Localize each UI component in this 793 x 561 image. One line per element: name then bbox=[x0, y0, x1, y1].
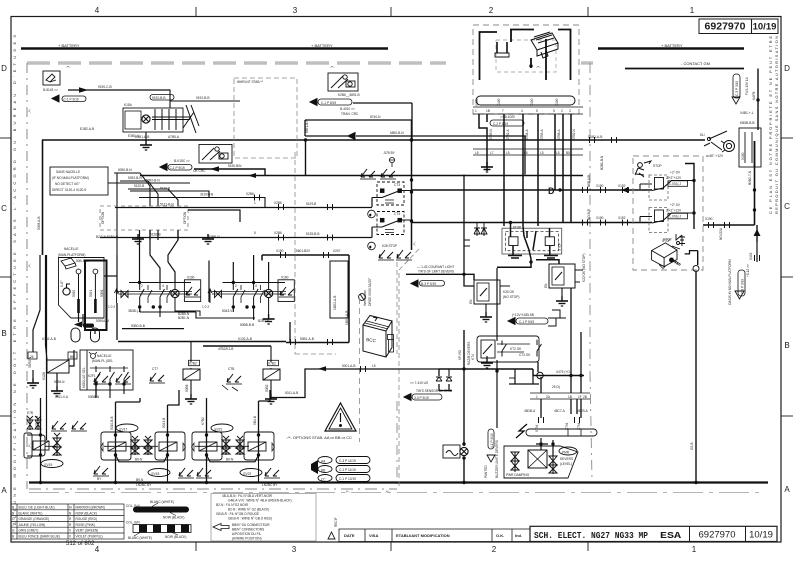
wire bracket right of diamond bbox=[685, 251, 698, 254]
svg-text:OPTION: OPTION bbox=[183, 211, 187, 224]
svg-text:512 of 802: 512 of 802 bbox=[66, 541, 95, 547]
badge AA bbox=[318, 457, 332, 464]
svg-text:DATE: DATE bbox=[344, 533, 355, 538]
wires right of option box bbox=[150, 210, 240, 240]
svg-text:GRIS (GREY): GRIS (GREY) bbox=[19, 529, 39, 533]
sensors above K2B bbox=[360, 169, 376, 179]
svg-text:DEVERS: DEVERS bbox=[560, 457, 573, 461]
svg-text:BLANC (WHITE): BLANC (WHITE) bbox=[19, 511, 43, 515]
svg-text:1BD2-A-B: 1BD2-A-B bbox=[333, 296, 337, 310]
left edge ticks bbox=[0, 137, 11, 139]
sensors above EV19 bbox=[51, 421, 67, 431]
svg-text:CT3: CT3 bbox=[394, 183, 400, 187]
svg-text:1: 1 bbox=[475, 109, 477, 113]
feed jogs into K2B pair bbox=[371, 198, 373, 238]
svg-text:5092-B-N: 5092-B-N bbox=[128, 176, 142, 180]
svg-text:3B3B-(-B: 3B3B-(-B bbox=[128, 309, 141, 313]
svg-text:3: 3 bbox=[293, 6, 298, 15]
right top connector box X190 bbox=[739, 128, 761, 167]
dashed box around plug bbox=[473, 25, 579, 114]
schematic dashed boundary right bbox=[589, 63, 591, 372]
svg-text:Ind.: Ind. bbox=[515, 533, 522, 538]
link wires through bowties bbox=[45, 445, 249, 447]
junction dots top rails bbox=[138, 281, 141, 284]
svg-text:5B4-B: 5B4-B bbox=[253, 416, 257, 425]
svg-text:-**-: -**- bbox=[413, 241, 417, 246]
svg-text:O.K.: O.K. bbox=[496, 533, 504, 538]
svg-text:KB5B-B-B: KB5B-B-B bbox=[740, 121, 755, 125]
icon box K15C bbox=[199, 145, 232, 164]
svg-text:PWR DAMPING: PWR DAMPING bbox=[506, 473, 530, 477]
svg-text:NO DETECT #G°: NO DETECT #G° bbox=[55, 182, 80, 186]
svg-text:D: D bbox=[784, 64, 790, 73]
feeder ladder wires bbox=[97, 183, 265, 207]
svg-text:VERT (GREEN): VERT (GREEN) bbox=[76, 529, 99, 533]
svg-text:BB/N° DU CONNECTEUR: BB/N° DU CONNECTEUR bbox=[232, 523, 270, 527]
top feed wires bbox=[117, 230, 269, 302]
svg-text:E3B1-A: E3B1-A bbox=[128, 134, 140, 138]
svg-text:TW'S OF LIMIT DEVERS: TW'S OF LIMIT DEVERS bbox=[418, 270, 454, 274]
wire bus K2 bbox=[412, 222, 653, 224]
svg-text:47B2-N: 47B2-N bbox=[572, 128, 576, 140]
svg-text:K7B2: K7B2 bbox=[201, 417, 205, 425]
thick connector frame bbox=[85, 261, 107, 331]
svg-text:K12B: K12B bbox=[42, 372, 46, 380]
svg-text:5096-N: 5096-N bbox=[54, 380, 65, 384]
icon 3D switch box top middle bbox=[328, 73, 358, 91]
svg-text:SANS NACELLE: SANS NACELLE bbox=[56, 170, 80, 174]
svg-text:-**-: -**- bbox=[330, 66, 335, 70]
svg-text:ORANGE (ORANGE): ORANGE (ORANGE) bbox=[19, 517, 50, 521]
svg-text:2: 2 bbox=[492, 545, 497, 554]
ground under K15A bbox=[140, 140, 152, 150]
svg-text:45DB-A: 45DB-A bbox=[524, 409, 536, 413]
ground bars left bbox=[508, 256, 558, 259]
svg-text:3: 3 bbox=[569, 109, 571, 113]
wire bus mid bbox=[140, 175, 583, 177]
feeds into level zone bbox=[536, 438, 553, 456]
svg-text:47B6-A: 47B6-A bbox=[557, 128, 561, 140]
ground from pin 1B bbox=[481, 162, 493, 172]
EV22 label bbox=[240, 469, 262, 477]
svg-text:D: D bbox=[548, 186, 555, 196]
svg-text:(MAN-PLATFORM): (MAN-PLATFORM) bbox=[58, 253, 85, 257]
svg-text:EN: EN bbox=[544, 283, 548, 288]
wires to K2B relays bbox=[100, 208, 372, 238]
schematic dashed boundary left bbox=[26, 63, 28, 489]
svg-text:-**-: -**- bbox=[66, 66, 71, 70]
valve bowtie EV19 bbox=[53, 433, 61, 456]
pin pairs on buses bbox=[583, 187, 588, 193]
K15A contacts bbox=[152, 105, 199, 133]
svg-text:L.001(-J: L.001(-J bbox=[670, 182, 682, 186]
EV17 label bbox=[116, 424, 138, 432]
right wire x755 lower stub bbox=[756, 242, 758, 262]
relay in level zone bbox=[528, 450, 547, 468]
icon box B-8143 bbox=[43, 71, 60, 85]
svg-text:EV17: EV17 bbox=[120, 428, 128, 432]
svg-text:BLEU CIE (LIGHT BLUE): BLEU CIE (LIGHT BLUE) bbox=[19, 506, 55, 510]
wires out of nacelle cluster bbox=[79, 276, 118, 334]
lamp left bbox=[175, 283, 200, 317]
EV21 label bbox=[211, 424, 233, 432]
svg-text:EV22: EV22 bbox=[244, 472, 252, 476]
svg-text:4: 4 bbox=[95, 545, 100, 554]
svg-text:X2B6: X2B6 bbox=[246, 192, 254, 196]
svg-text:-**-: -**- bbox=[385, 490, 390, 494]
svg-text:BLANC (WHITE): BLANC (WHITE) bbox=[150, 500, 174, 504]
boxed ref 4-1 P 9/19 vertical bbox=[488, 429, 494, 449]
svg-text:45C7-A: 45C7-A bbox=[554, 409, 566, 413]
svg-text:+2°-0V: +2°-0V bbox=[670, 203, 681, 207]
svg-text:X794: X794 bbox=[535, 424, 539, 432]
boxed ref C-1 P 9/19 bbox=[62, 96, 86, 102]
relay K12B bbox=[47, 360, 69, 373]
stop relay box frame bbox=[502, 228, 562, 254]
svg-text:B2B3-N: B2B3-N bbox=[258, 319, 270, 323]
svg-text:B: B bbox=[1, 329, 6, 338]
stop cluster wires bbox=[497, 223, 559, 268]
svg-text:BB: BB bbox=[321, 468, 325, 472]
svg-text:BLEU FONCE (DARK BLUE): BLEU FONCE (DARK BLUE) bbox=[19, 535, 60, 539]
relay K2B lower bbox=[377, 212, 404, 235]
svg-text:K132-A-B: K132-A-B bbox=[42, 337, 56, 341]
dash boundary at BCC left bbox=[359, 298, 361, 442]
svg-text:B9-N: B9-N bbox=[226, 458, 234, 462]
svg-text:C: C bbox=[784, 202, 790, 211]
svg-text:5090: 5090 bbox=[72, 290, 76, 297]
svg-text:COL. B/N: COL. B/N bbox=[126, 521, 140, 525]
svg-text:K132-A-B: K132-A-B bbox=[238, 337, 252, 341]
svg-text:L5: L5 bbox=[372, 364, 376, 368]
svg-text:C-3 P 3/19: C-3 P 3/19 bbox=[735, 81, 739, 96]
circular connector icon bbox=[721, 141, 735, 153]
stop man icon bbox=[635, 161, 651, 177]
svg-text:KT2 OK: KT2 OK bbox=[510, 347, 522, 351]
svg-text:OASIS IN NO MAN-PLATFORM: OASIS IN NO MAN-PLATFORM bbox=[728, 259, 732, 305]
svg-text:GB.B-R : WIRE N° GB.O RED): GB.B-R : WIRE N° GB.O RED) bbox=[228, 517, 272, 521]
svg-text:LN2BC BY: LN2BC BY bbox=[136, 483, 152, 487]
relay X782 left bbox=[183, 369, 200, 380]
right edge wire of relay groups bbox=[685, 164, 694, 230]
wiring note block bbox=[216, 494, 292, 541]
capsule tube bbox=[526, 429, 597, 436]
right group rail bbox=[212, 283, 286, 295]
svg-text:1B: 1B bbox=[568, 395, 572, 399]
svg-text:50B0-B-B: 50B0-B-B bbox=[131, 324, 145, 328]
svg-text:L5: L5 bbox=[475, 151, 479, 155]
svg-text:C-2 P 8/19: C-2 P 8/19 bbox=[493, 122, 508, 126]
small valve above diamond bbox=[679, 236, 685, 247]
svg-text:B5: B5 bbox=[566, 151, 570, 155]
lamp in K15A bbox=[142, 115, 150, 123]
wires below module bbox=[96, 386, 124, 398]
svg-text:PMR: PMR bbox=[562, 451, 570, 455]
svg-text:WHRLNT STAB.**: WHRLNT STAB.** bbox=[237, 80, 264, 84]
wire bus y371 bbox=[439, 368, 533, 370]
thick wire loop in connector zone bbox=[480, 30, 571, 81]
svg-text:FUS.13V 1A: FUS.13V 1A bbox=[745, 76, 749, 95]
svg-text:GB.B-R : FIL N°GB.O ROUGE: GB.B-R : FIL N°GB.O ROUGE bbox=[216, 512, 259, 516]
svg-text:-**- OPTIONS STAB. AA or BB or: -**- OPTIONS STAB. AA or BB or CC bbox=[286, 435, 352, 440]
svg-text:G2-B: G2-B bbox=[690, 443, 694, 450]
contacts left group bbox=[140, 283, 171, 308]
svg-text:STOP: STOP bbox=[653, 164, 662, 168]
color sample bar COL. B-N bbox=[126, 500, 189, 520]
svg-text:ROUGE (RED): ROUGE (RED) bbox=[76, 517, 97, 521]
BCC 3D box bbox=[363, 316, 394, 358]
bowtie valves lower-left E7B bbox=[27, 416, 41, 430]
svg-text:X190: X190 bbox=[276, 249, 284, 253]
svg-text:TRAN. CRC: TRAN. CRC bbox=[341, 112, 359, 116]
svg-text:DL/: DL/ bbox=[700, 133, 705, 137]
svg-text:(+12V K185-5B: (+12V K185-5B bbox=[512, 313, 534, 317]
svg-text:EV21: EV21 bbox=[215, 428, 223, 432]
svg-text:X190: X190 bbox=[187, 276, 195, 280]
svg-text:NOIR (BLACK): NOIR (BLACK) bbox=[163, 516, 184, 520]
svg-text:B-3 P 9/19: B-3 P 9/19 bbox=[421, 282, 436, 286]
svg-text:CTB: CTB bbox=[228, 367, 234, 371]
svg-text:B-4010 >>: B-4010 >> bbox=[340, 107, 355, 111]
svg-text:X479 (+O-: X479 (+O- bbox=[556, 370, 571, 374]
pin column 2 bbox=[93, 269, 98, 313]
svg-text:L5: L5 bbox=[524, 151, 528, 155]
second contact in KT2 bbox=[502, 340, 542, 357]
svg-text:-**-: -**- bbox=[536, 66, 541, 70]
bowtie valve right bbox=[215, 291, 222, 298]
svg-text:MARRON (BROWN): MARRON (BROWN) bbox=[76, 506, 105, 510]
svg-text:X190: X190 bbox=[705, 217, 713, 221]
diodes on stubs bbox=[436, 377, 452, 381]
svg-text:35/50 N: 35/50 N bbox=[28, 356, 32, 368]
svg-text:5011-A-B: 5011-A-B bbox=[285, 391, 298, 395]
svg-text:XP-RD: XP-RD bbox=[458, 349, 462, 360]
svg-text:NOIR (BLACK): NOIR (BLACK) bbox=[165, 535, 186, 539]
level valve polygon bbox=[504, 446, 578, 478]
circled L3 symbols bbox=[368, 210, 376, 250]
svg-text:STOP: STOP bbox=[513, 226, 522, 230]
svg-text:L7: L7 bbox=[490, 151, 494, 155]
svg-text:L5: L5 bbox=[540, 151, 544, 155]
footer revision strip bbox=[339, 529, 530, 542]
svg-text:B: B bbox=[12, 535, 14, 539]
svg-text:D1B1-A-B: D1B1-A-B bbox=[588, 135, 602, 139]
svg-text:-**-: -**- bbox=[28, 263, 32, 268]
bus direction arrow bbox=[621, 187, 629, 193]
lever arrow left bbox=[115, 289, 119, 303]
svg-text:C: C bbox=[1, 204, 7, 213]
bus corner at left of D101 bbox=[42, 140, 44, 255]
svg-text:(IF NO MAN-PLATFORM): (IF NO MAN-PLATFORM) bbox=[52, 176, 89, 180]
svg-text:4-1 P 9/19: 4-1 P 9/19 bbox=[490, 433, 494, 448]
svg-text:-**-: -**- bbox=[28, 443, 32, 448]
svg-text:C-1 P 11/19: C-1 P 11/19 bbox=[339, 468, 356, 472]
svg-text:50B1-A-B: 50B1-A-B bbox=[300, 337, 314, 341]
warning triangle bbox=[325, 403, 356, 431]
wire labels vertical bbox=[489, 128, 576, 140]
svg-text:50BB-N: 50BB-N bbox=[88, 395, 100, 399]
svg-text:4: 4 bbox=[95, 6, 100, 15]
svg-text:C-1 P 9/19: C-1 P 9/19 bbox=[64, 97, 79, 101]
3D diamond box (buzzer) bbox=[652, 243, 681, 269]
dashed option boundary (center) bbox=[294, 152, 296, 354]
svg-text:5011-V-A: 5011-V-A bbox=[55, 395, 69, 399]
svg-text:9192-B-B: 9192-B-B bbox=[196, 96, 209, 100]
svg-text:EN: EN bbox=[469, 299, 473, 304]
ground bottom bus bbox=[29, 481, 768, 483]
circle on wire bbox=[537, 372, 543, 378]
svg-text:C-3 P 11/19: C-3 P 11/19 bbox=[339, 459, 356, 463]
relay group B bbox=[649, 208, 668, 233]
svg-text:L5: L5 bbox=[506, 151, 510, 155]
svg-text:K30 OK: K30 OK bbox=[503, 290, 515, 294]
contacts right group bbox=[233, 283, 264, 308]
black label bar bbox=[83, 324, 94, 328]
arrow down triangle bbox=[732, 97, 740, 104]
svg-text:B2-N : WIRE N° G2 (BLACK): B2-N : WIRE N° G2 (BLACK) bbox=[228, 508, 269, 512]
module tall box left of bcc bbox=[330, 261, 348, 318]
svg-text:X207: X207 bbox=[333, 249, 341, 253]
detect circle 0-G bbox=[63, 284, 70, 295]
svg-text:>> B-4020: >> B-4020 bbox=[500, 115, 515, 119]
svg-text:NO.B.R: NO.B.R bbox=[587, 208, 591, 220]
svg-text:RAZ/B DEVERS: RAZ/B DEVERS bbox=[467, 342, 471, 365]
svg-text:NACELLE: NACELLE bbox=[97, 354, 112, 358]
svg-text:47B5-A: 47B5-A bbox=[540, 128, 544, 140]
svg-text:A: A bbox=[784, 485, 790, 494]
svg-text:5090-B-N: 5090-B-N bbox=[118, 168, 132, 172]
svg-text:5043-B: 5043-B bbox=[162, 418, 166, 428]
svg-text:X4B1-+-L: X4B1-+-L bbox=[740, 111, 754, 115]
svg-text:SCH. ELECT. NG27 NG33 MP: SCH. ELECT. NG27 NG33 MP bbox=[534, 530, 648, 541]
EV21/EV22 vertical feeds bbox=[207, 395, 271, 483]
relay K30 OK bbox=[474, 280, 510, 304]
pin column 1 bbox=[76, 269, 81, 313]
wire 5090-B-B mid horizontal bbox=[83, 303, 290, 342]
svg-text:(A/WIRE POSITION): (A/WIRE POSITION) bbox=[232, 537, 262, 541]
vertical bus right of K2B bbox=[411, 120, 413, 250]
svg-text:thermofuse: thermofuse bbox=[363, 290, 367, 306]
svg-text:+2°-0V: +2°-0V bbox=[670, 171, 681, 175]
svg-text:10/19: 10/19 bbox=[753, 22, 777, 33]
svg-text:X190: X190 bbox=[741, 152, 745, 160]
lever icon right bbox=[704, 131, 727, 150]
svg-text:B2B1-B-N: B2B1-B-N bbox=[600, 155, 604, 170]
svg-text:X192: X192 bbox=[618, 184, 626, 188]
svg-text:NO.G2A: NO.G2A bbox=[719, 227, 723, 240]
color sample bar COL. B/N bbox=[126, 521, 191, 541]
svg-text:B2/2-N B2B4-N: B2/2-N B2B4-N bbox=[96, 235, 119, 239]
svg-text:TW'S SENSOR DL STAB: TW'S SENSOR DL STAB bbox=[416, 389, 452, 393]
feed wires to K30/K22 bbox=[464, 175, 474, 287]
relay group A bbox=[649, 175, 668, 200]
svg-text:B9B2-7-N: B9B2-7-N bbox=[748, 170, 752, 185]
svg-text:X7B2: X7B2 bbox=[268, 362, 276, 366]
svg-text:-57B BY: -57B BY bbox=[383, 151, 396, 155]
wave damper box bbox=[443, 445, 460, 458]
svg-text:X190: X190 bbox=[555, 98, 559, 106]
right edge ticks bbox=[781, 137, 793, 139]
svg-text:-**-: -**- bbox=[28, 108, 32, 113]
svg-text:X192: X192 bbox=[618, 216, 626, 220]
pin row X190 top bbox=[473, 107, 583, 114]
svg-text:45TB-A: 45TB-A bbox=[577, 409, 589, 413]
svg-text:K2F1: K2F1 bbox=[88, 374, 96, 378]
3D plug icon bbox=[531, 32, 558, 58]
badge BB bbox=[318, 466, 332, 473]
svg-text:C-1 P 12/19: C-1 P 12/19 bbox=[339, 477, 356, 481]
C-3 P 3/19 vertical ref mid right bbox=[738, 270, 745, 296]
long vertical x696 bbox=[696, 251, 698, 483]
svg-text:9192-B-B: 9192-B-B bbox=[152, 96, 165, 100]
svg-text:B: B bbox=[784, 341, 789, 350]
wire bus D101-A-B bbox=[42, 139, 705, 141]
sensor CTB center bbox=[226, 374, 242, 384]
wire 9190-C-B bbox=[68, 89, 170, 91]
note arrow icon bbox=[213, 524, 229, 531]
K2B wire loop bbox=[305, 103, 525, 175]
svg-text:5120-B: 5120-B bbox=[134, 184, 144, 188]
sensors below EV17 bbox=[93, 466, 109, 476]
fuse vertical ref bbox=[733, 74, 740, 98]
svg-text:C-1 P 8/19: C-1 P 8/19 bbox=[321, 101, 336, 105]
svg-text:B7B.A-B: B7B.A-B bbox=[35, 416, 39, 428]
svg-text:L5: L5 bbox=[556, 151, 560, 155]
wire 9192-B-B upper bbox=[170, 100, 240, 102]
under-module link wires bbox=[116, 455, 259, 462]
assembly EV21 module bbox=[192, 432, 223, 460]
svg-text:7: 7 bbox=[502, 109, 504, 113]
svg-text:G4B.A-V-N : WIRE N° 4B.A GREEN: G4B.A-V-N : WIRE N° 4B.A GREEN-BLACK) bbox=[228, 499, 292, 503]
ground under option bbox=[132, 234, 144, 244]
OPTION dashed box bbox=[100, 206, 188, 230]
svg-text:X192: X192 bbox=[749, 252, 753, 260]
svg-text:8740-N: 8740-N bbox=[370, 115, 381, 119]
bowtie valve left bbox=[121, 291, 128, 298]
svg-text:5098-A-B: 5098-A-B bbox=[37, 217, 41, 230]
svg-text:5129-B: 5129-B bbox=[306, 202, 316, 206]
module contacts bbox=[90, 366, 129, 386]
svg-text:STOP: STOP bbox=[558, 242, 562, 251]
svg-text:C73 OK: C73 OK bbox=[519, 353, 531, 357]
wire 5001-A-B lower right bbox=[118, 342, 349, 347]
svg-text:2: 2 bbox=[489, 6, 494, 15]
svg-text:2 +2°+12V: 2 +2°+12V bbox=[666, 176, 682, 180]
svg-text:0-G°: 0-G° bbox=[60, 280, 64, 287]
vertical wire x464 bbox=[463, 330, 465, 483]
svg-text:LN2BC BY: LN2BC BY bbox=[262, 483, 278, 487]
svg-text:K15A: K15A bbox=[124, 103, 133, 107]
wiring note block border bbox=[211, 494, 316, 542]
badge CC bbox=[318, 475, 332, 482]
sensor box left bbox=[184, 280, 200, 302]
svg-text:DIRECT X120-4 X120-5: DIRECT X120-4 X120-5 bbox=[52, 188, 86, 192]
EV17 bowties bbox=[131, 436, 152, 455]
wire bus K1 bbox=[412, 189, 652, 191]
assembly EV22 module bbox=[244, 432, 275, 460]
svg-text:50B1: 50B1 bbox=[100, 289, 104, 297]
svg-text:(NO STOP): (NO STOP) bbox=[503, 295, 519, 299]
bottom link wires bbox=[140, 307, 255, 320]
svg-text:6927970: 6927970 bbox=[705, 21, 746, 33]
feed from left into KT2 bbox=[487, 268, 497, 428]
svg-text:50B6: 50B6 bbox=[185, 384, 189, 392]
svg-text:BLANC (WHITE): BLANC (WHITE) bbox=[128, 536, 152, 540]
wire 5011-A-B lower bbox=[270, 369, 452, 398]
svg-text:X190: X190 bbox=[530, 98, 534, 106]
svg-text:E1B2-A-B: E1B2-A-B bbox=[80, 127, 94, 131]
svg-text:JAUNE (YELLOW): JAUNE (YELLOW) bbox=[19, 523, 46, 527]
